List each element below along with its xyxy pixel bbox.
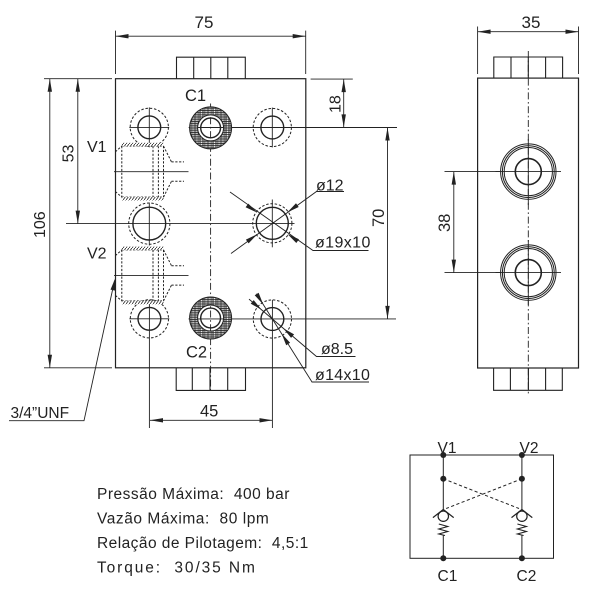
- svg-text:45: 45: [200, 403, 218, 421]
- svg-text:V2: V2: [520, 440, 539, 457]
- svg-text:C1: C1: [185, 87, 206, 105]
- svg-text:V2: V2: [87, 246, 107, 263]
- svg-text:Torque: 30/35 Nm: Torque: 30/35 Nm: [97, 560, 257, 577]
- svg-text:C1: C1: [438, 568, 458, 585]
- svg-text:V1: V1: [87, 139, 107, 156]
- svg-text:18: 18: [327, 95, 344, 113]
- svg-text:Vazão Máxima: 80 lpm: Vazão Máxima: 80 lpm: [97, 511, 269, 528]
- svg-text:106: 106: [32, 211, 49, 238]
- svg-text:ø14x10: ø14x10: [315, 367, 370, 384]
- svg-text:V1: V1: [438, 440, 457, 457]
- svg-text:53: 53: [60, 145, 77, 163]
- svg-text:ø19x10: ø19x10: [315, 235, 371, 252]
- svg-text:70: 70: [370, 209, 388, 227]
- svg-text:ø8.5: ø8.5: [321, 341, 353, 358]
- svg-text:Relação de Pilotagem: 4,5:1: Relação de Pilotagem: 4,5:1: [97, 535, 309, 552]
- svg-text:Pressão Máxima: 400 bar: Pressão Máxima: 400 bar: [97, 486, 290, 503]
- svg-text:C2: C2: [186, 344, 207, 362]
- svg-text:38: 38: [436, 214, 454, 232]
- svg-text:ø12: ø12: [316, 178, 344, 195]
- svg-text:C2: C2: [517, 568, 537, 585]
- svg-text:75: 75: [195, 13, 214, 32]
- svg-text:35: 35: [522, 13, 541, 32]
- svg-text:3/4”UNF: 3/4”UNF: [11, 405, 70, 422]
